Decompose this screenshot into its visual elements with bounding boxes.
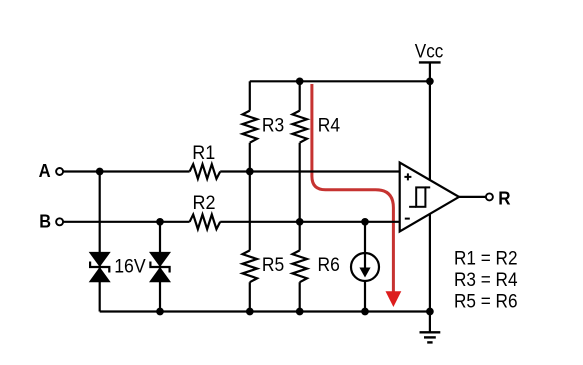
svg-text:R1: R1 bbox=[192, 143, 215, 164]
svg-text:R5: R5 bbox=[262, 255, 284, 276]
svg-text:R: R bbox=[498, 188, 510, 208]
svg-text:R3 = R4: R3 = R4 bbox=[454, 270, 518, 291]
svg-text:R3: R3 bbox=[262, 115, 284, 136]
svg-text:Vcc: Vcc bbox=[415, 42, 444, 63]
svg-text:R5 = R6: R5 = R6 bbox=[454, 291, 518, 312]
svg-text:R6: R6 bbox=[318, 255, 340, 276]
svg-text:R4: R4 bbox=[318, 115, 341, 136]
svg-text:R2: R2 bbox=[193, 193, 216, 214]
svg-text:R1 = R2: R1 = R2 bbox=[454, 248, 518, 269]
svg-text:A: A bbox=[39, 161, 51, 181]
svg-text:16V: 16V bbox=[114, 257, 146, 278]
svg-text:B: B bbox=[39, 211, 51, 231]
